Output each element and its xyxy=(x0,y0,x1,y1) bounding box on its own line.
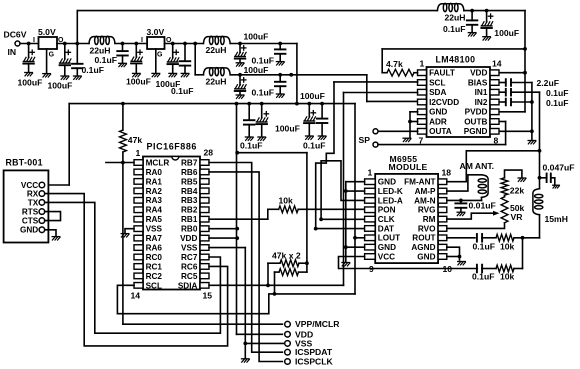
wire 3V feed line xyxy=(237,152,307,154)
node rail C13 xyxy=(260,102,264,106)
wire PON xyxy=(298,208,364,210)
op-amp U3 LM48100 xyxy=(418,55,502,146)
wire SCL to LM48100 xyxy=(334,81,418,83)
svg-text:1: 1 xyxy=(368,167,373,177)
node row2 C10 xyxy=(238,73,242,77)
svg-text:I: I xyxy=(141,37,143,44)
wire RBT RX to PIC RC6 xyxy=(45,194,228,346)
svg-text:PIC16F886: PIC16F886 xyxy=(147,141,197,151)
svg-text:LED-A: LED-A xyxy=(378,196,403,205)
wire MCLR xyxy=(106,162,134,164)
wire PVDD xyxy=(499,111,525,113)
ground M6955 gnd bus xyxy=(342,263,350,266)
wire SDA vertical xyxy=(343,93,345,286)
capacitor C16 0.1uF xyxy=(443,11,477,36)
svg-text:SDIA: SDIA xyxy=(178,281,198,290)
node MCLR xyxy=(121,161,125,165)
svg-text:0.1uF: 0.1uF xyxy=(171,86,193,96)
wire GND ADR xyxy=(410,112,418,138)
svg-text:1: 1 xyxy=(420,59,425,69)
resistor R4 47k xyxy=(268,260,307,267)
wire RBT GND xyxy=(45,230,60,240)
capacitor C13 100uF xyxy=(256,104,299,141)
ground PGND xyxy=(528,141,536,144)
wire row1 xyxy=(230,43,297,45)
inductor L3 22uH xyxy=(203,68,230,87)
antenna coil AM xyxy=(478,175,488,198)
regulator U1 5.0V xyxy=(33,27,64,77)
node 5V out xyxy=(63,42,67,46)
capacitor C21 0.01uF xyxy=(455,200,495,215)
connector ICSP xyxy=(285,319,340,366)
svg-text:10k: 10k xyxy=(279,196,294,206)
wire rail end drop xyxy=(354,104,356,294)
svg-text:VDD: VDD xyxy=(180,234,197,243)
svg-text:RC7: RC7 xyxy=(181,253,198,262)
svg-text:RC5: RC5 xyxy=(181,272,198,281)
svg-text:RX: RX xyxy=(27,190,39,199)
capacitor C23 0.1uF xyxy=(472,265,496,282)
svg-text:ICSPCLK: ICSPCLK xyxy=(295,357,334,367)
wire row2 xyxy=(230,74,367,76)
svg-text:0.1uF: 0.1uF xyxy=(240,140,262,150)
capacitor C19 0.1uF IN1 xyxy=(499,88,568,98)
node IN2 bias xyxy=(530,100,534,104)
node CLK corner xyxy=(319,217,323,221)
svg-text:47k x 2: 47k x 2 xyxy=(272,250,301,260)
svg-text:14: 14 xyxy=(492,59,502,69)
svg-text:RB3: RB3 xyxy=(181,196,198,205)
svg-text:4.7k: 4.7k xyxy=(386,59,403,69)
wire SP- to OUTB xyxy=(378,122,506,145)
wire RB0 stub xyxy=(209,228,237,230)
ic U6 M6955 module xyxy=(365,154,453,274)
node AGND GND xyxy=(458,255,462,259)
node DAT corner xyxy=(314,227,318,231)
svg-text:100uF: 100uF xyxy=(300,91,325,101)
svg-text:RA0: RA0 xyxy=(146,168,163,177)
capacitor C7 0.1uF xyxy=(171,44,193,97)
svg-text:RM: RM xyxy=(423,215,436,224)
wire OUTA to SP xyxy=(378,130,418,132)
capacitor C15 0.1uF xyxy=(303,104,327,151)
svg-text:RA1: RA1 xyxy=(146,177,163,186)
svg-text:100uF: 100uF xyxy=(18,78,43,88)
wire IN to regulator xyxy=(20,43,39,45)
wire R5 tap xyxy=(274,272,276,294)
node audio mix xyxy=(521,236,525,240)
svg-text:18: 18 xyxy=(442,167,452,177)
ic U5 RBT-001 xyxy=(4,158,49,243)
svg-text:10k: 10k xyxy=(500,271,515,281)
svg-text:OUTA: OUTA xyxy=(429,127,452,136)
svg-text:RC1: RC1 xyxy=(146,262,163,271)
svg-text:28: 28 xyxy=(204,148,214,158)
svg-text:PGND: PGND xyxy=(464,127,488,136)
wire 4.7k pullup to VDD xyxy=(382,49,525,73)
node R4 SDIA xyxy=(266,283,270,287)
node row2 branch xyxy=(289,73,293,77)
capacitor C5 100uF xyxy=(126,44,151,87)
node L4 C17 xyxy=(485,9,489,13)
wire drop to row2 xyxy=(195,44,203,75)
svg-text:100uF: 100uF xyxy=(126,77,151,87)
svg-text:MODULE: MODULE xyxy=(389,162,428,172)
svg-text:VSS: VSS xyxy=(181,243,198,252)
svg-text:RB7: RB7 xyxy=(181,158,198,167)
inductor L4 22uH xyxy=(437,3,465,22)
wire row2 to mix xyxy=(522,238,524,269)
svg-text:0.1uF: 0.1uF xyxy=(82,65,104,75)
wire L1 to reg2 xyxy=(115,43,147,45)
svg-text:GND: GND xyxy=(417,252,435,261)
node rail 47k xyxy=(121,102,125,106)
svg-text:FM-ANT: FM-ANT xyxy=(404,178,435,187)
svg-text:0.1uF: 0.1uF xyxy=(443,24,465,34)
svg-text:22uH: 22uH xyxy=(206,45,227,55)
node input junction xyxy=(27,42,31,46)
resistor R6 22k xyxy=(501,178,524,196)
node VDD pin xyxy=(523,71,527,75)
svg-text:RC6: RC6 xyxy=(181,262,198,271)
svg-text:VPP/MCLR: VPP/MCLR xyxy=(295,319,340,329)
resistor R8 10k xyxy=(496,265,523,281)
svg-text:SCL: SCL xyxy=(429,78,445,87)
resistor R1 4.7k xyxy=(382,59,417,76)
svg-text:100uF: 100uF xyxy=(244,65,269,75)
wire VDD pin xyxy=(499,72,525,74)
svg-text:RB4: RB4 xyxy=(181,187,198,196)
svg-text:G: G xyxy=(157,51,163,58)
wire M6955 gnd bus xyxy=(346,182,365,262)
svg-text:RB2: RB2 xyxy=(181,206,198,215)
capacitor C14 100uF xyxy=(300,91,325,139)
wire riser to top rail xyxy=(76,11,78,44)
capacitor C6 100uF xyxy=(156,44,181,90)
svg-text:SP: SP xyxy=(359,135,371,145)
svg-text:0.1uF: 0.1uF xyxy=(252,88,274,98)
svg-text:AGND: AGND xyxy=(411,243,435,252)
svg-text:100uF: 100uF xyxy=(494,28,519,38)
node rail C12 xyxy=(247,102,251,106)
node PIC VDD xyxy=(235,236,239,240)
wire rail to RBT VCC xyxy=(45,104,69,185)
svg-text:IN2: IN2 xyxy=(475,98,488,107)
potentiometer VR1 50k xyxy=(501,197,524,223)
label SP xyxy=(359,135,371,145)
capacitor C9 0.1uF xyxy=(252,44,286,66)
node cap tap xyxy=(75,42,79,46)
svg-text:14: 14 xyxy=(131,290,141,300)
svg-text:100uF: 100uF xyxy=(275,124,300,134)
wire SDIA line xyxy=(209,284,344,286)
svg-text:10k: 10k xyxy=(500,241,515,251)
wire RM to VR wiper xyxy=(447,211,500,219)
wire RB6 to ICSPCLK xyxy=(209,172,282,362)
capacitor C10 100uF xyxy=(235,65,269,99)
svg-text:VSS: VSS xyxy=(146,225,163,234)
node LOUT xyxy=(353,236,357,240)
wire VCC branch xyxy=(339,257,478,269)
svg-text:VDD: VDD xyxy=(470,69,487,78)
svg-text:0.1uF: 0.1uF xyxy=(546,98,568,108)
ground PIC VSS left xyxy=(121,229,134,237)
wire L4 to VDD drop xyxy=(464,10,525,12)
svg-text:ROUT: ROUT xyxy=(412,234,435,243)
svg-text:0.1uF: 0.1uF xyxy=(546,88,568,98)
wire RB7 to ICSPDAT xyxy=(209,163,282,353)
svg-text:3.0V: 3.0V xyxy=(147,27,165,37)
svg-text:RB6: RB6 xyxy=(181,168,198,177)
node VDD 4.7k tap xyxy=(523,47,527,51)
svg-text:RC2: RC2 xyxy=(146,272,163,281)
capacitor C1 100uF xyxy=(18,44,43,88)
svg-text:DC6V: DC6V xyxy=(4,30,27,40)
svg-text:LOUT: LOUT xyxy=(378,234,400,243)
svg-text:22uH: 22uH xyxy=(90,46,111,56)
node R5 SCL xyxy=(273,292,277,296)
wire IN1 to radio xyxy=(539,92,541,178)
node row1 C8 xyxy=(238,42,242,46)
svg-text:47k: 47k xyxy=(128,135,143,145)
svg-text:0.047uF: 0.047uF xyxy=(543,163,575,173)
ground AGND xyxy=(458,262,466,265)
svg-text:2.2uF: 2.2uF xyxy=(537,78,559,88)
net label DC6V xyxy=(4,30,27,40)
wire PIC SCL route xyxy=(117,285,355,313)
node 0.01uF tap xyxy=(459,199,463,203)
svg-text:15: 15 xyxy=(203,290,213,300)
ic U4 PIC16F886 xyxy=(131,141,214,300)
inductor L2 22uH xyxy=(203,36,230,55)
svg-text:RB0: RB0 xyxy=(181,225,198,234)
svg-text:RA6: RA6 xyxy=(146,243,163,252)
wire FM-ANT xyxy=(447,151,540,182)
svg-text:5.0V: 5.0V xyxy=(38,27,56,37)
svg-text:IN1: IN1 xyxy=(475,88,488,97)
wire SDA to LM48100 xyxy=(344,92,418,94)
terminal SP- xyxy=(373,142,378,147)
svg-text:0.1uF: 0.1uF xyxy=(473,241,495,251)
svg-text:OUTB: OUTB xyxy=(464,117,487,126)
wire coil to AM-N xyxy=(447,197,482,200)
capacitor C22 0.1uF xyxy=(473,234,497,251)
svg-text:CTS: CTS xyxy=(22,217,39,226)
svg-text:RTS: RTS xyxy=(22,208,39,217)
wire RB1 to 10k xyxy=(209,209,268,219)
wire LOUT xyxy=(355,237,365,239)
svg-text:RC0: RC0 xyxy=(146,253,163,262)
wire R4 tap xyxy=(267,263,269,285)
svg-text:PON: PON xyxy=(378,206,396,215)
node 0.047uF tap xyxy=(538,176,542,180)
svg-text:VCC: VCC xyxy=(378,252,395,261)
wire top 5V rail xyxy=(77,10,437,12)
node PGND bias xyxy=(530,129,534,133)
svg-text:0.1uF: 0.1uF xyxy=(95,55,117,65)
resistor R3 10k xyxy=(268,196,298,213)
ground ICSP VSS xyxy=(242,359,250,362)
svg-text:AM-N: AM-N xyxy=(414,196,435,205)
svg-text:0.1uF: 0.1uF xyxy=(303,140,325,150)
svg-text:VR: VR xyxy=(511,212,524,222)
wire ROUT xyxy=(447,237,475,239)
node cap C7 tap xyxy=(183,42,187,46)
svg-text:22uH: 22uH xyxy=(445,12,466,22)
wire MCLR to VPP xyxy=(123,163,283,325)
svg-text:GND: GND xyxy=(429,108,447,117)
svg-text:I2CVDD: I2CVDD xyxy=(429,98,459,107)
wire 22k gnd hook xyxy=(505,170,526,181)
capacitor C12 0.1uF xyxy=(240,104,262,151)
node split 3V rows xyxy=(193,42,197,46)
wire 5V rail xyxy=(57,43,89,45)
node rail C14 xyxy=(307,102,311,106)
wire PIC VDD pin xyxy=(209,237,237,239)
svg-text:TX: TX xyxy=(28,198,39,207)
svg-text:CLK: CLK xyxy=(378,215,395,224)
wire VDD vertical xyxy=(237,104,283,335)
svg-text:22k: 22k xyxy=(510,185,525,195)
wire SCL stair to DAT xyxy=(316,82,365,229)
svg-text:AM-P: AM-P xyxy=(415,187,436,196)
wire RBT TX to PIC RC7 xyxy=(45,202,221,333)
svg-text:RVO: RVO xyxy=(418,224,436,233)
capacitor C24 0.047uF xyxy=(540,163,575,189)
svg-text:15mH: 15mH xyxy=(545,214,568,224)
svg-text:RA7: RA7 xyxy=(146,234,163,243)
resistor R7 10k xyxy=(496,234,540,251)
wire VDD vertical xyxy=(524,11,526,112)
svg-text:G: G xyxy=(49,51,55,58)
node FM-ANT junction xyxy=(538,149,542,153)
capacitor C17 100uF xyxy=(481,11,519,40)
svg-text:SDA: SDA xyxy=(429,88,446,97)
wire PIC VSS pin xyxy=(209,247,245,249)
node LED-K gnd xyxy=(344,189,348,193)
svg-text:PVDD: PVDD xyxy=(465,108,488,117)
svg-text:LM48100: LM48100 xyxy=(436,55,476,65)
node rail C15 xyxy=(320,102,324,106)
ground LM48100 GND xyxy=(403,138,411,141)
capacitor C8 100uF xyxy=(235,32,269,67)
wire row1 drop xyxy=(296,44,298,104)
wire PGND xyxy=(499,130,532,132)
svg-text:MCLR: MCLR xyxy=(146,158,170,167)
svg-text:RA5: RA5 xyxy=(146,215,163,224)
svg-text:I: I xyxy=(33,37,35,44)
node GND8 xyxy=(344,245,348,249)
capacitor C4 0.1uF xyxy=(95,44,128,67)
capacitor C2 100uF xyxy=(48,44,73,91)
svg-text:ADR: ADR xyxy=(429,117,447,126)
svg-text:BIAS: BIAS xyxy=(468,78,488,87)
node rail row1 feed xyxy=(295,102,299,106)
resistor R2 47k xyxy=(120,104,143,163)
svg-text:RA2: RA2 xyxy=(146,187,163,196)
wire bias bus xyxy=(531,83,533,141)
svg-text:RA3: RA3 xyxy=(146,196,163,205)
svg-text:LED-K: LED-K xyxy=(378,187,403,196)
svg-text:100uF: 100uF xyxy=(48,81,73,91)
label AM ANT. xyxy=(460,161,495,171)
svg-text:SCL: SCL xyxy=(146,281,162,290)
terminal SP+ xyxy=(373,129,378,134)
svg-text:DAT: DAT xyxy=(378,224,394,233)
svg-text:IN: IN xyxy=(8,47,17,57)
node L1 out xyxy=(121,42,125,46)
node ADR junction xyxy=(408,120,412,124)
capacitor C18 2.2uF BIAS xyxy=(499,78,559,88)
wire 3V rail xyxy=(165,43,204,45)
node rail VDD drop xyxy=(235,102,239,106)
wire AM-P xyxy=(447,175,482,191)
wire LED-A CLK link xyxy=(321,161,365,220)
svg-text:GND: GND xyxy=(20,226,38,235)
regulator U2 3.0V xyxy=(141,27,172,77)
wire row2 to I2CVDD xyxy=(367,75,418,102)
svg-text:RA4: RA4 xyxy=(146,206,163,215)
svg-text:100uF: 100uF xyxy=(244,32,269,42)
wire pullup bus xyxy=(306,153,308,272)
node 3V out xyxy=(171,42,175,46)
svg-text:AM ANT.: AM ANT. xyxy=(460,161,495,171)
terminal IN (DC input) xyxy=(8,41,21,57)
wire mid 5V rail xyxy=(69,103,355,105)
inductor L1 22uH xyxy=(89,36,115,55)
resistor R5 47k xyxy=(275,269,307,276)
node row1 C9 xyxy=(278,42,282,46)
wire AGND xyxy=(447,247,460,260)
wire VSS vertical xyxy=(245,248,284,359)
wire RVO to VR xyxy=(447,195,505,228)
inductor L5 15mH xyxy=(533,178,568,238)
svg-text:0.1uF: 0.1uF xyxy=(472,271,494,281)
svg-text:1: 1 xyxy=(136,148,141,158)
node RB0 VDD xyxy=(235,227,239,231)
svg-text:FAULT: FAULT xyxy=(429,69,455,78)
node row2 C11 xyxy=(278,73,282,77)
node VDD 3V line xyxy=(235,151,239,155)
node ICSP VSS xyxy=(243,342,247,346)
label 47k x 2 xyxy=(272,250,301,260)
svg-text:GND: GND xyxy=(378,178,396,187)
svg-text:RBT-001: RBT-001 xyxy=(6,158,43,168)
node R4 bus xyxy=(305,261,309,265)
svg-text:RB1: RB1 xyxy=(181,215,198,224)
wire RBT RTS-CTS link xyxy=(45,212,61,221)
capacitor C11 0.1uF xyxy=(252,75,286,98)
svg-text:0.01uF: 0.01uF xyxy=(469,201,496,211)
capacitor C20 0.1uF IN2 xyxy=(499,98,568,108)
svg-text:RB5: RB5 xyxy=(181,177,198,186)
svg-text:RVG: RVG xyxy=(418,206,436,215)
node cap C5 tap xyxy=(134,42,138,46)
node L4 C16 xyxy=(470,9,474,13)
capacitor C3 0.1uF xyxy=(72,44,104,80)
svg-text:22uH: 22uH xyxy=(206,77,227,87)
svg-text:GND: GND xyxy=(378,243,396,252)
